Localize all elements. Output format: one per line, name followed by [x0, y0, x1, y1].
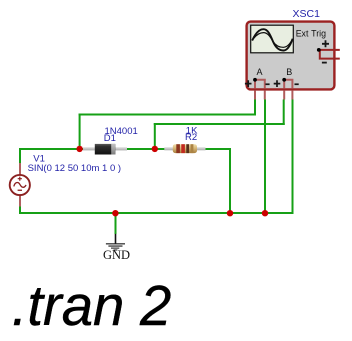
oscilloscope waveform trace big	[252, 29, 292, 50]
svg-text:GND: GND	[103, 248, 130, 262]
wire GND drop	[115, 213, 117, 234]
svg-text:XSC1: XSC1	[293, 8, 321, 20]
wire bottom horizontal	[19, 212, 294, 214]
source V1 circle	[10, 175, 30, 195]
resistor R2 band 4 gold	[191, 144, 194, 153]
wire A+ riser green	[254, 100, 256, 116]
ground bar 4	[114, 250, 118, 251]
svg-text:B: B	[286, 67, 292, 77]
wire V1 bottom vertical	[19, 206, 21, 214]
svg-text:SIN(0 12 50 10m 1 0 ): SIN(0 12 50 10m 1 0 )	[28, 163, 121, 174]
oscilloscope U1 XSC1 body	[247, 22, 335, 90]
pin dot channel A	[253, 78, 257, 82]
channel B minus mark	[295, 83, 299, 85]
source V1 sine mark	[14, 183, 26, 188]
pin stub B plus (below box)	[283, 91, 285, 100]
ext trig plus mark	[322, 40, 329, 47]
oscilloscope display window	[251, 25, 294, 53]
svg-text:R2: R2	[185, 132, 197, 143]
wire B+ riser green	[283, 100, 285, 126]
junction dot middle (diode cathode / resistor)	[152, 146, 158, 152]
oscilloscope waveform trace small	[252, 33, 292, 48]
pin A minus route (internal)	[255, 80, 265, 89]
source V1 top stub	[19, 163, 21, 176]
wire junction B up (x154.8)	[154, 123, 156, 149]
wire horizontal 2 (y124 to B+ riser)	[154, 123, 285, 125]
resistor R2 band 3 dark brown	[186, 144, 189, 153]
resistor R2 right lead	[197, 147, 206, 150]
wire V1 top vertical	[19, 148, 21, 164]
pin dot channel B	[282, 78, 286, 82]
ext trig minus mark	[322, 62, 327, 64]
wire junction A up (x79.5)	[79, 114, 81, 150]
source V1 bottom stub	[19, 195, 21, 207]
wire main horizontal top (V1 to resistor corner)	[19, 148, 231, 150]
ground bar 1	[106, 243, 125, 244]
ext trig pin bracket	[319, 50, 340, 59]
ground bar 2	[108, 246, 122, 247]
resistor R2 body	[173, 144, 197, 153]
resistor R2 band 1 brown	[176, 144, 180, 153]
pin stub A minus (below box)	[264, 91, 266, 100]
pin stub B minus (below box)	[291, 91, 293, 100]
svg-text:Ext Trig: Ext Trig	[296, 29, 326, 39]
source V1 minus mark	[18, 190, 22, 191]
diode D1 left lead	[83, 147, 95, 150]
diode D1 cathode band	[111, 144, 115, 155]
resistor R2 band 2 red	[181, 144, 185, 153]
diode D1 right lead	[115, 147, 127, 150]
channel A minus mark	[265, 83, 269, 85]
resistor R2 left lead	[164, 147, 173, 150]
junction dot GND	[112, 210, 118, 216]
junction dot A- bottom	[262, 210, 268, 216]
ground lead black	[115, 234, 117, 244]
svg-text:D1: D1	[104, 133, 116, 144]
junction dot resistor bottom	[227, 210, 233, 216]
wire horizontal 1 (y114.5 to A+ riser)	[79, 114, 256, 116]
ext trig pin dot	[317, 48, 321, 52]
diode D1 body	[95, 144, 116, 155]
channel A plus mark	[245, 80, 252, 87]
pin B plus route (internal)	[283, 79, 285, 88]
wire A- vertical down to bottom	[264, 100, 266, 215]
source V1 plus mark	[18, 177, 22, 181]
channel B plus mark	[274, 80, 281, 87]
svg-text:.tran 2: .tran 2	[12, 274, 172, 337]
wire resistor right drop to bottom	[229, 148, 231, 214]
pin A plus route (internal)	[254, 79, 256, 88]
svg-text:A: A	[257, 67, 263, 77]
junction dot left (diode anode)	[76, 146, 82, 152]
wire B- vertical down to bottom corner	[292, 100, 294, 215]
ground bar 3	[111, 248, 119, 249]
pin stub A plus (below box)	[254, 91, 256, 100]
pin B minus route (internal)	[284, 80, 292, 89]
